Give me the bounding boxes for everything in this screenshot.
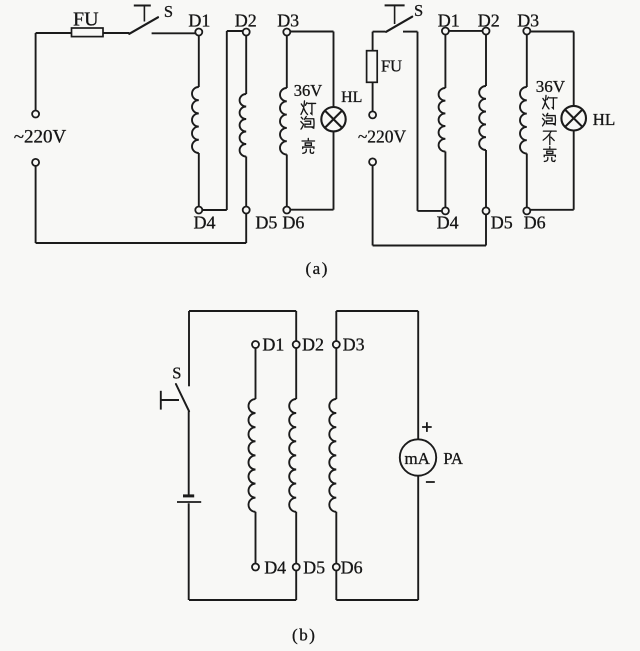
svg-text:D1: D1 xyxy=(188,10,210,30)
svg-text:D4: D4 xyxy=(437,213,459,233)
svg-text:mA: mA xyxy=(404,449,430,468)
svg-text:D6: D6 xyxy=(524,213,546,233)
svg-text:(b): (b) xyxy=(292,626,316,645)
svg-text:D4: D4 xyxy=(194,213,216,233)
svg-text:D2: D2 xyxy=(235,10,257,30)
svg-text:FU: FU xyxy=(73,8,99,30)
svg-text:PA: PA xyxy=(443,449,463,468)
svg-text:D2: D2 xyxy=(478,10,500,30)
svg-text:D5: D5 xyxy=(255,213,277,233)
svg-text:D3: D3 xyxy=(277,10,299,30)
svg-text:36V: 36V xyxy=(536,77,566,96)
svg-text:HL: HL xyxy=(593,110,616,129)
svg-text:~220V: ~220V xyxy=(14,127,67,148)
svg-text:D5: D5 xyxy=(303,558,325,578)
svg-text:(a): (a) xyxy=(306,259,329,278)
svg-text:S: S xyxy=(164,2,173,21)
svg-text:D3: D3 xyxy=(343,335,365,355)
svg-text:FU: FU xyxy=(381,56,402,75)
svg-text:HL: HL xyxy=(341,89,362,106)
svg-text:D2: D2 xyxy=(302,335,324,355)
svg-text:S: S xyxy=(414,1,423,20)
svg-text:S: S xyxy=(172,363,181,382)
svg-text:36V: 36V xyxy=(294,81,323,100)
svg-text:D6: D6 xyxy=(282,213,304,233)
svg-text:~220V: ~220V xyxy=(358,127,407,147)
svg-text:D3: D3 xyxy=(517,10,539,30)
svg-text:D1: D1 xyxy=(262,335,284,355)
svg-text:D4: D4 xyxy=(264,558,286,578)
svg-text:D1: D1 xyxy=(438,10,460,30)
svg-text:D5: D5 xyxy=(491,213,513,233)
svg-text:D6: D6 xyxy=(341,558,363,578)
